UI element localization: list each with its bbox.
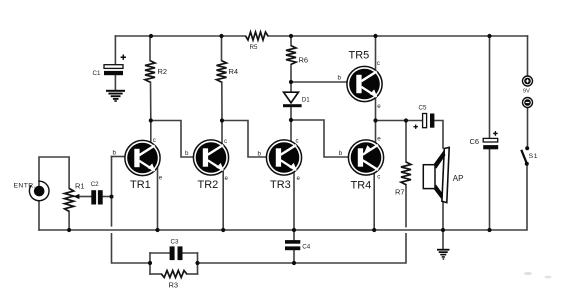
ground speaker (437, 249, 449, 260)
junction TR2 emitter ground rail (221, 228, 225, 232)
svg-text:R6: R6 (299, 56, 309, 65)
capacitor C5 (414, 105, 435, 129)
wire C4 top lead (293, 230, 295, 240)
svg-text:e: e (225, 175, 229, 182)
pin labels TR3 (258, 138, 301, 183)
wire TR3 emitter lead (293, 169, 295, 230)
faint scan smudges (524, 272, 532, 275)
wire C3 top branch right (183, 252, 198, 254)
wire input jack bottom (38, 201, 40, 230)
svg-text:R7: R7 (395, 188, 405, 197)
capacitor C6 (470, 131, 499, 149)
svg-text:C3: C3 (171, 239, 179, 246)
resistor R1 (65, 188, 74, 211)
svg-text:AP: AP (453, 174, 464, 183)
svg-text:C2: C2 (91, 181, 99, 188)
svg-text:TR5: TR5 (349, 50, 370, 62)
svg-text:c: c (377, 60, 380, 67)
junction D1 cathode TR3 collector (289, 118, 293, 122)
wire R3 bottom branch left (150, 273, 161, 275)
junction speaker ground rail (441, 228, 445, 232)
wire TR5 base from D1 anode node (291, 81, 347, 83)
svg-text:ENTR.: ENTR. (14, 183, 36, 190)
svg-text:C4: C4 (302, 244, 310, 251)
transistor TR2 (193, 140, 228, 175)
wire R1 bottom lead (68, 211, 70, 230)
input jack ENTR (14, 181, 50, 201)
pin labels TR5 (338, 60, 382, 110)
junction TR5 collector top rail (373, 34, 377, 38)
battery 9V (523, 76, 533, 108)
capacitor C4 (285, 240, 311, 250)
svg-text:c: c (296, 138, 299, 145)
svg-text:C6: C6 (470, 137, 480, 146)
wire battery to switch (527, 108, 529, 149)
wire C3 top branch left (150, 252, 170, 254)
junction C3 R3 left node (148, 261, 152, 265)
wire C6 bottom lead (489, 149, 491, 230)
resistor R2 (145, 61, 155, 83)
svg-text:e: e (159, 175, 163, 182)
wire TR2 emitter lead (222, 168, 224, 230)
resistor R4 (217, 61, 227, 83)
svg-text:b: b (185, 150, 189, 157)
wire TR5 collector lead (375, 36, 377, 71)
junction C6 ground rail (487, 228, 491, 232)
transistor TR3 (266, 140, 301, 175)
svg-text:b: b (338, 74, 342, 81)
resistor R7 (401, 162, 411, 185)
svg-text:9V: 9V (523, 89, 530, 95)
wire R2 bottom lead to TR1 collector (150, 82, 152, 141)
wire R6 bottom lead to D1 anode node (290, 64, 292, 92)
wire switch to ground rail corner (490, 164, 528, 230)
wire R6 top lead (290, 36, 292, 46)
wire battery drop from top rail (527, 36, 529, 76)
svg-text:TR4: TR4 (351, 180, 372, 192)
resistor R3 (161, 271, 186, 278)
junction TR1 emitter ground rail (155, 228, 159, 232)
wire D1 node to TR4 base jog (291, 120, 348, 157)
junction TR4 collector ground rail (372, 228, 376, 232)
wire R7 bottom lead with crossover break (405, 185, 407, 227)
svg-text:S1: S1 (529, 153, 539, 160)
wire TR1 base vertical with crossover break (111, 157, 113, 226)
wire speaker bottom to ground rail and earth (442, 202, 444, 249)
wire C6 top lead (489, 36, 491, 138)
junction R6 D1 TR5 base (289, 80, 293, 84)
svg-text:TR3: TR3 (270, 179, 291, 191)
svg-text:b: b (113, 150, 117, 157)
pin labels TR1 (113, 137, 163, 182)
wire R1 wiper to C2 (79, 196, 91, 198)
wire top rail right segment (268, 35, 528, 37)
capacitor C3 (170, 239, 183, 261)
junction R6 top rail (289, 34, 293, 38)
svg-text:R4: R4 (229, 67, 239, 76)
junction R1 ground rail (67, 228, 71, 232)
wire C4 bottom lead (293, 250, 295, 263)
svg-text:TR2: TR2 (198, 179, 219, 191)
svg-text:C1: C1 (93, 70, 101, 77)
wire C2 to TR1 base vertical (103, 196, 111, 198)
wire C1 to ground (114, 75, 116, 89)
wire C1 drop from top rail (114, 36, 116, 65)
junction TR1 collector R2 (149, 118, 153, 122)
svg-text:R5: R5 (250, 44, 258, 51)
wire feedback rail box to C4 (198, 262, 295, 264)
wire R4 top lead (221, 36, 223, 61)
junction R7 C5 output node (404, 118, 408, 122)
svg-text:R2: R2 (158, 67, 168, 76)
svg-text:c: c (377, 174, 380, 181)
svg-text:e: e (297, 175, 301, 182)
junction C2 TR1 base (110, 195, 114, 199)
svg-text:R1: R1 (75, 182, 85, 191)
svg-text:c: c (153, 137, 156, 144)
wire TR1 collector node to TR2 base jog (151, 121, 193, 158)
junction TR5 emitter TR4 emitter (373, 118, 377, 122)
capacitor C1 (93, 55, 127, 78)
wire D1 cathode to TR3 collector (290, 107, 292, 140)
wire output node to C5 (376, 120, 423, 122)
wire top rail left segment (115, 35, 245, 37)
wire TR1 emitter lead (157, 168, 159, 230)
svg-text:b: b (258, 151, 262, 158)
pin labels TR2 (185, 138, 229, 182)
junction TR3 emitter C4 ground rail (292, 228, 296, 232)
wire C3 R3 box right side (197, 253, 199, 274)
switch S1 (521, 146, 538, 166)
wire R4 bottom lead to TR2 collector (221, 82, 223, 146)
junction C4 feedback rail (292, 261, 296, 265)
capacitor C2 (91, 181, 103, 205)
svg-text:c: c (224, 138, 227, 145)
svg-text:C5: C5 (419, 105, 427, 112)
wire TR5 emitter to TR4 emitter (375, 98, 377, 143)
wire R7 to feedback rail corner (294, 234, 406, 263)
wire R3 bottom branch right (187, 273, 198, 275)
potentiometer wiper arrow R1 (73, 194, 79, 199)
resistor R6 (286, 46, 296, 65)
resistor R5 (246, 32, 269, 40)
wire input jack top (39, 157, 69, 188)
ground C1 (106, 90, 125, 102)
wire C5 to speaker corner (434, 121, 443, 149)
wire TR2 collector node to TR3 base jog (222, 121, 266, 158)
junction C3 R3 right node (195, 261, 199, 265)
wire C3 R3 box left side (149, 253, 151, 274)
junction TR2 collector R4 (220, 118, 224, 122)
wire R2 top lead (149, 36, 151, 61)
svg-text:D1: D1 (302, 96, 310, 103)
transistor TR4 (348, 140, 383, 175)
transistor TR1 (125, 140, 160, 175)
junction R4 top rail (219, 34, 223, 38)
diode D1 (283, 92, 310, 107)
svg-text:TR1: TR1 (130, 179, 151, 191)
wire R7 top lead (405, 121, 407, 163)
wire TR1 base vertical lower part to feedback rail (112, 234, 151, 263)
svg-text:R3: R3 (169, 281, 179, 290)
wire ground rail main (39, 229, 490, 231)
junction R2 top rail (149, 34, 153, 38)
wire TR4 collector to ground rail (373, 173, 375, 230)
pin labels TR4 (339, 136, 382, 181)
svg-text:b: b (339, 150, 343, 157)
svg-text:e: e (377, 136, 381, 143)
junction C6 top rail (487, 34, 491, 38)
svg-text:e: e (377, 103, 381, 110)
transistor TR5 (347, 66, 382, 101)
speaker AP (423, 147, 463, 202)
wire TR1 base horizontal (112, 156, 125, 158)
